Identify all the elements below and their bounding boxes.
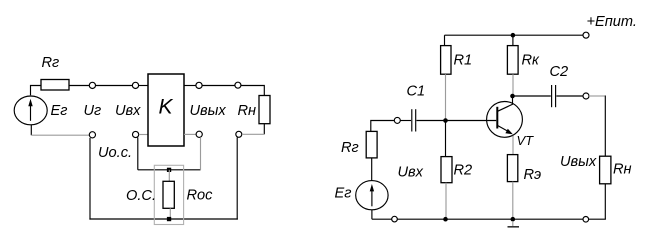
wire Eг bottom lead — [371, 210, 373, 220]
node Rк top junction — [511, 33, 516, 38]
node feedback bottom junction — [167, 217, 171, 221]
svg-text:Rос: Rос — [187, 188, 214, 204]
node R2 ground junction — [443, 217, 448, 222]
resistor Rэ — [507, 155, 517, 182]
svg-text:+Eпит.: +Eпит. — [587, 14, 637, 30]
svg-text:О.С.: О.С. — [126, 188, 156, 204]
wire R1 top lead — [444, 35, 446, 45]
amplifier block K — [148, 74, 184, 146]
wire right return vertical — [236, 137, 238, 219]
wire input terminal to Rг column — [371, 121, 395, 132]
wire (gray) Rк bottom lead — [512, 74, 514, 96]
svg-text:C1: C1 — [407, 84, 426, 100]
wire source-top to Rг — [31, 86, 42, 96]
wire input terminal to C1 — [400, 120, 411, 122]
wire (gray) R1 bottom lead — [445, 74, 447, 120]
terminal output — [583, 93, 589, 99]
wire Rос top lead — [168, 170, 170, 182]
svg-text:VT: VT — [517, 133, 535, 148]
resistor Rг — [366, 131, 377, 158]
svg-text:Uвых: Uвых — [190, 103, 227, 119]
wire source-bottom down — [30, 125, 32, 136]
wire Rг to terminal Uг — [69, 85, 89, 87]
wire Rг bottom lead — [371, 158, 373, 181]
resistor R2 — [441, 157, 452, 183]
node Rэ ground junction — [511, 217, 516, 222]
wire bottom return rail — [89, 218, 237, 220]
wire Rк top lead — [512, 35, 514, 45]
transistor emitter — [498, 126, 511, 133]
terminal Uг bottom — [89, 132, 95, 138]
wire feedback left vertical — [137, 138, 139, 170]
terminal input bottom — [392, 216, 398, 222]
resistor Rн — [259, 96, 270, 124]
wire (gray) Rэ bottom lead — [512, 182, 514, 220]
svg-text:Uо.с.: Uо.с. — [98, 145, 132, 161]
svg-text:R2: R2 — [454, 163, 473, 179]
node feedback top junction — [167, 168, 171, 172]
terminal Uг top — [89, 82, 95, 88]
svg-text:Rг: Rг — [42, 55, 60, 71]
wire C2 to output terminal — [556, 95, 583, 97]
wire top supply rail — [445, 34, 583, 36]
svg-text:Eг: Eг — [51, 103, 68, 119]
svg-text:K: K — [159, 96, 174, 119]
svg-text:Rн: Rн — [238, 103, 257, 119]
resistor R1 — [441, 46, 451, 75]
wire R2 top lead — [445, 121, 447, 157]
node collector junction — [510, 94, 515, 99]
wire (gray) feedback right vertical — [200, 137, 202, 170]
terminal output top — [196, 82, 202, 88]
source Eг (circle) — [14, 96, 47, 125]
resistor Rос — [163, 181, 174, 208]
source Eг (right circuit) — [356, 181, 388, 210]
resistor Rн (right circuit) — [600, 156, 611, 184]
transistor base bar — [496, 107, 498, 129]
wire (gray) source-bottom to lower terminal — [31, 134, 89, 136]
wire Rн bottom to load bottom terminal — [263, 124, 265, 135]
terminal load bottom — [236, 131, 242, 137]
svg-text:Rэ: Rэ — [524, 167, 542, 183]
terminal output bottom — [583, 217, 589, 223]
wire (gray) R2 bottom lead — [445, 183, 447, 220]
terminal Uвх top — [132, 82, 138, 88]
svg-text:Uвх: Uвх — [398, 165, 424, 181]
node base bias junction — [443, 118, 448, 123]
wire Rос bottom lead — [169, 208, 171, 217]
svg-text:Uвых: Uвых — [560, 154, 597, 170]
svg-text:Uвх: Uвх — [115, 103, 141, 119]
svg-text:Uг: Uг — [84, 103, 102, 119]
wire stub K to output top terminal — [184, 85, 196, 87]
svg-text:Eг: Eг — [335, 186, 352, 202]
transistor collector — [498, 96, 513, 111]
source Eг arrow — [371, 189, 373, 207]
wire stub (gray) K to output bottom terminal — [184, 133, 196, 135]
wire stub input top to K — [139, 85, 148, 87]
wire left return vertical — [89, 138, 91, 220]
capacitor C2 — [551, 85, 553, 107]
svg-text:Rк: Rк — [522, 53, 541, 69]
wire feedback horizontal — [138, 169, 201, 171]
terminal supply — [583, 32, 589, 38]
capacitor C1 — [411, 109, 413, 131]
svg-text:C2: C2 — [550, 64, 569, 80]
transistor VT — [487, 102, 523, 138]
wire output terminal to Rн column — [589, 95, 605, 97]
terminal output bottom — [196, 131, 202, 137]
terminal load top — [235, 82, 241, 88]
wire collector junction to C2 — [513, 95, 551, 97]
wire bottom ground rail — [372, 218, 606, 220]
wire load terminal to Rн top — [241, 86, 264, 96]
wire (gray) emitter to Rэ — [512, 136, 514, 155]
svg-text:Rн: Rн — [613, 162, 632, 178]
ground — [512, 221, 514, 226]
resistor Rк — [507, 46, 518, 75]
svg-text:R1: R1 — [454, 53, 473, 69]
wire Rн bottom lead — [604, 184, 606, 219]
wire output top to load terminal — [202, 85, 235, 87]
svg-text:Rг: Rг — [341, 140, 359, 156]
feedback block O.C. outline (gray) — [154, 165, 183, 224]
terminal input — [394, 117, 400, 123]
wire stub (gray) input bottom to K — [139, 134, 148, 136]
terminal Uвх bottom — [133, 131, 139, 137]
wire C1 to base — [417, 120, 497, 122]
resistor Rг — [41, 80, 69, 91]
source Eг arrow — [30, 104, 32, 121]
wire Uг to Uвх terminal — [96, 85, 133, 87]
